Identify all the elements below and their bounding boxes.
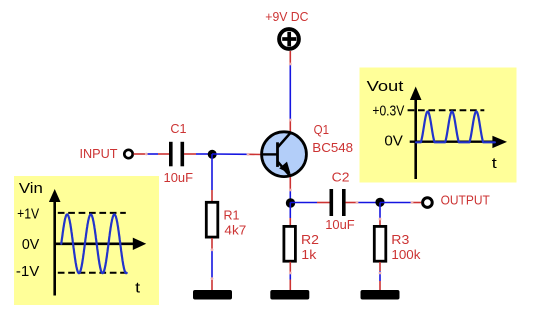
wire: C2 right pin (red) [346, 202, 358, 204]
wire: node B to C2 (blue) [290, 202, 317, 204]
wire: C1 left pin (red) [158, 153, 169, 155]
Vin horizontal axis [55, 243, 135, 246]
wire: R2 bottom pin (red) [289, 262, 291, 273]
wire: input terminal pin (red) [134, 153, 147, 155]
Vout oscilloscope box [360, 68, 517, 183]
wire: R1 top pin (red) [211, 190, 213, 201]
node A junction dot [208, 150, 217, 159]
Vin oscilloscope box [14, 176, 159, 305]
transistor Q1 [262, 132, 307, 177]
wire: C1 right pin (red) [184, 153, 196, 155]
svg-text:10uF: 10uF [164, 170, 194, 185]
Vout vertical axis [414, 98, 417, 179]
svg-text:BC548: BC548 [312, 140, 353, 155]
node B junction dot [286, 198, 295, 207]
svg-text:t: t [492, 156, 497, 172]
svg-text:0V: 0V [22, 237, 40, 253]
wire: node C to output (blue) [380, 202, 412, 204]
svg-text:R1: R1 [224, 207, 240, 222]
svg-text:C1: C1 [170, 121, 186, 136]
wire: C2 left pin (red) [317, 202, 330, 204]
wire: R3 top pin (red) [379, 219, 381, 226]
svg-text:10uF: 10uF [325, 217, 355, 232]
wire: supply pin (red) [289, 51, 291, 64]
svg-text:R3: R3 [391, 232, 409, 247]
Vin sine waveform [61, 214, 126, 273]
svg-text:Q1: Q1 [314, 122, 329, 137]
Vout clipped waveform [416, 112, 495, 143]
wire: node A to base (blue) [212, 153, 248, 155]
wire: C1 to node A (blue) [196, 153, 212, 155]
svg-text:0V: 0V [384, 133, 403, 149]
wire: collector pin (red) [289, 120, 291, 132]
wire: node B down to R2 (blue) [289, 203, 291, 219]
wire: emitter to node B (blue) [289, 190, 291, 202]
svg-text:t: t [135, 281, 140, 297]
wire: R2 top pin (red) [289, 218, 291, 226]
resistor R1 [206, 202, 218, 237]
wire: ground pin (red) [211, 279, 213, 291]
ground under R2 [270, 290, 309, 300]
svg-text:+0.3V: +0.3V [372, 104, 404, 120]
wire: R3 ground pin (red) [379, 281, 381, 290]
wire: node A down to R1 (blue) [211, 154, 213, 190]
wire: output terminal pin (red) [412, 202, 421, 204]
capacitor C1 [169, 142, 173, 167]
wire: R2 to ground (blue) [289, 273, 291, 280]
resistor R3 [374, 226, 386, 261]
output terminal [423, 198, 433, 208]
wire: R3 bottom pin (red) [379, 262, 381, 271]
wire: C2 to node C (blue) [357, 202, 380, 204]
Vin -1V dashed level [58, 272, 127, 274]
svg-text:OUTPUT: OUTPUT [441, 192, 490, 207]
wire: input to C1 (blue) [146, 153, 158, 155]
wire: emitter pin (red) [289, 177, 291, 190]
wire: node C down to R3 (blue) [379, 203, 381, 220]
wire: R1 to ground (blue) [211, 250, 213, 279]
Vin vertical axis [53, 200, 56, 296]
Vin +1V dashed level [58, 212, 126, 214]
svg-text:INPUT: INPUT [80, 146, 118, 161]
pin markers on wires [145, 153, 148, 156]
Vout +0.3V dashed level [408, 109, 485, 111]
ground under R1 [193, 290, 232, 300]
power terminal symbol [279, 29, 299, 49]
wire: R3 to ground (blue) [379, 271, 381, 281]
resistor R2 [284, 226, 296, 261]
capacitor C2 [330, 189, 334, 216]
svg-text:4k7: 4k7 [224, 223, 246, 238]
svg-text:Vin: Vin [19, 181, 43, 197]
svg-text:+9V DC: +9V DC [265, 9, 308, 24]
svg-text:1k: 1k [301, 247, 317, 262]
svg-text:C2: C2 [332, 169, 350, 184]
ground under R3 [361, 290, 400, 300]
node C junction dot [375, 198, 384, 207]
svg-text:R2: R2 [301, 232, 319, 247]
input terminal [124, 150, 132, 158]
wire: base pin (red) [248, 153, 262, 155]
wire: R1 bottom pin (red) [211, 238, 213, 250]
svg-text:-1V: -1V [16, 264, 40, 280]
Vout horizontal axis [410, 140, 494, 142]
svg-text:Vout: Vout [367, 79, 404, 95]
wire: supply to collector (blue) [289, 64, 291, 120]
svg-text:100k: 100k [391, 247, 421, 262]
svg-text:+1V: +1V [17, 206, 39, 222]
wire: R2 ground pin (red) [289, 280, 291, 291]
